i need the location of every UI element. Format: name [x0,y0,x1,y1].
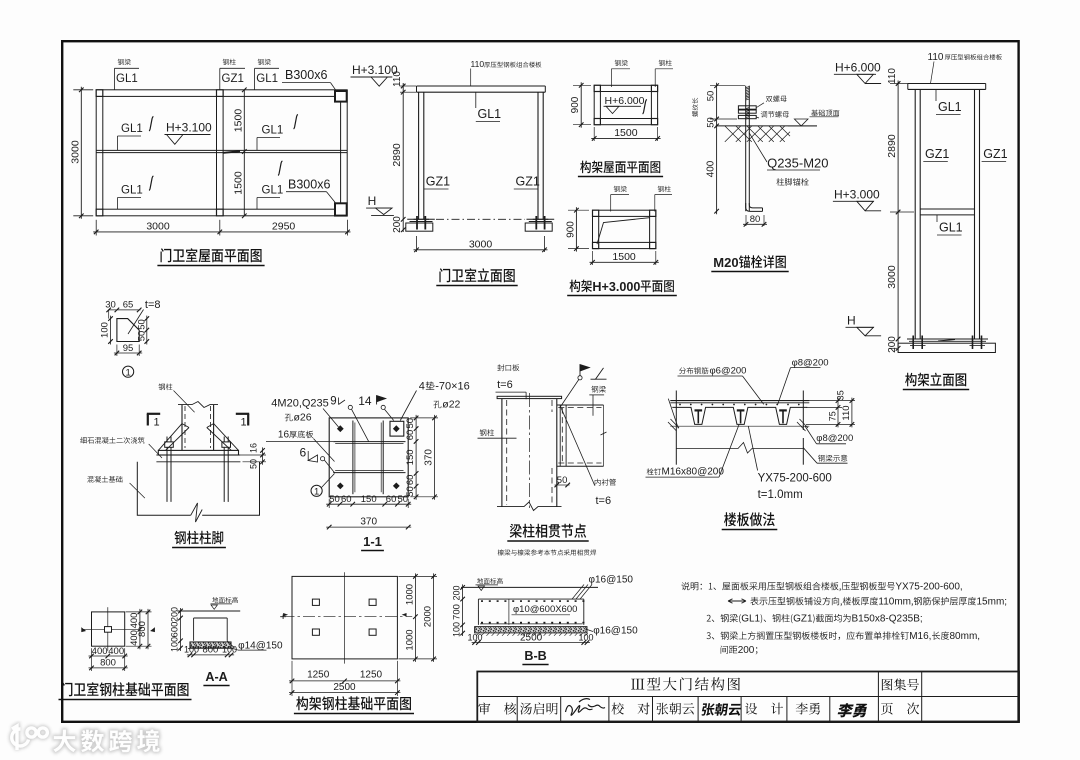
K center column square [105,627,112,633]
double nut 双螺母 [738,106,756,109]
K foundation square [92,612,125,646]
elevation B label GL1 [475,92,477,108]
plan C left dimension 900 [580,82,582,127]
svg-text:200: 200 [738,645,755,656]
I column break bottom [497,502,562,511]
K title 门卫室钢柱基础平面图 [62,682,189,696]
L column squares [312,599,319,605]
title block signature 3 李勇 (bold cursive) [836,703,868,717]
svg-text:1250: 1250 [307,670,330,681]
svg-text:60: 60 [386,494,397,505]
plan C outline [594,85,657,124]
B-B ground line [461,586,598,588]
G2 column shaft [181,405,183,451]
svg-text:60: 60 [341,494,352,505]
svg-text:1500: 1500 [614,127,638,139]
svg-text:1: 1 [314,486,319,497]
svg-text:Q235-M20: Q235-M20 [767,156,828,171]
H dim right inner 50/60/150/60/50 [415,415,417,500]
svg-text:B300x6: B300x6 [285,68,327,82]
G2 label 钢柱 [159,384,173,391]
plan A label: steel beam GL1 top-left [118,59,131,65]
watermark logo and text 大数跨境 [12,726,160,752]
H washer plate square [390,421,404,436]
svg-text:100: 100 [100,322,111,338]
svg-text:1500: 1500 [612,251,636,263]
J title 楼板做法 [724,512,775,526]
svg-text:A-A: A-A [205,670,227,684]
svg-text:1: 1 [125,367,130,378]
plan D left dimension 900 [575,207,577,251]
plan A right corner columns (thick) [335,91,347,102]
plan D outline [593,210,656,248]
elevation B ground dash line [436,218,525,220]
svg-text:1: 1 [241,417,247,429]
svg-text:110: 110 [841,405,852,420]
svg-text:200: 200 [887,336,898,353]
J label 分布钢筋6@200 [679,367,708,374]
H column box walls extended [352,421,354,495]
svg-text:1250: 1250 [360,670,383,681]
B-B center line [508,599,510,625]
J label 钢梁示意 [818,455,847,462]
notes arrow symbol [728,599,746,603]
plan K: guard room column foundation 门卫室钢柱基础平面图 [59,607,192,699]
svg-text:2500: 2500 [333,682,356,693]
title block label 图集号 [882,679,919,691]
F anchor bolts [912,336,914,350]
G2 foundation break zigzag [191,503,203,522]
svg-text:H+3.000: H+3.000 [592,280,640,294]
L title 构架钢柱基础平面图 [296,696,411,710]
svg-text:50: 50 [405,418,416,429]
title block signature 1 (cursive) [566,699,606,716]
L foundation rectangle [292,576,397,659]
G2 column break mark [178,402,218,408]
svg-text:110: 110 [887,68,898,84]
svg-text:GZ1: GZ1 [426,175,450,189]
plan C: frame roof plan 构架屋面平面图 [570,60,673,177]
svg-text:1-1: 1-1 [363,534,382,549]
K bottom dims 400/400/800 [89,655,128,657]
plan A middle beam GL1 [96,149,347,151]
svg-text:GZ1: GZ1 [516,175,540,189]
svg-text:B-B: B-B [524,649,546,663]
B-B pad hatch below [476,633,588,636]
svg-text:ø22: ø22 [442,399,460,411]
svg-text:t=6: t=6 [596,495,612,507]
J slab end diagonals [668,399,678,429]
I beam top/bottom flange [557,404,604,406]
svg-text:150: 150 [405,449,416,465]
svg-text:GZ1: GZ1 [222,73,244,85]
plan A beam-over mark at center [224,151,241,153]
G2 right dimension 16 50 [262,447,264,464]
H dim bottom 370 [326,526,411,528]
G2 secondary grout layer [156,454,240,456]
svg-text:φ6@200: φ6@200 [710,366,747,377]
A-A footing pad dark band [190,642,231,648]
svg-text:110mm: 110mm [878,597,911,608]
plan A beam tick marks [149,116,153,131]
K center axis lines [107,607,109,651]
svg-text:t=6: t=6 [497,379,513,391]
plan D title 构架H+3.000平面图 [570,280,592,293]
svg-text:110: 110 [392,71,403,87]
svg-text:1500: 1500 [233,109,245,133]
svg-text:100: 100 [222,645,237,655]
svg-text:400: 400 [108,646,124,657]
svg-text:100: 100 [184,645,199,655]
svg-text:φ8@200: φ8@200 [792,358,829,369]
elevation B bottom dimension 3000 [416,236,418,252]
svg-text:M20: M20 [713,255,738,270]
plan D bottom dimension 1500 [592,251,594,265]
svg-text:30: 30 [105,300,116,311]
H detail circle 1 with leader [311,485,322,496]
svg-text:65: 65 [123,300,134,311]
svg-text:3000: 3000 [469,238,493,250]
title block drawing name Ⅲ型大门结构图 [631,677,740,690]
anchor bolt threaded top hatch [746,87,750,88]
svg-text:35: 35 [836,390,846,400]
svg-text:t=8: t=8 [145,299,161,311]
elevation B: guard room elevation 门卫室立面图 [351,59,555,286]
I cap plate 封口板 [497,396,561,398]
svg-text:ø26: ø26 [294,412,312,424]
plan D: frame plan at H+3.000 构架H+3.000平面图 [565,186,676,296]
svg-text:GL1: GL1 [256,73,278,85]
J shear studs in ribs [697,411,699,424]
anchor bolt rod [745,86,747,212]
H dim bottom 50/60/150/60/50 [326,503,411,505]
title block name 李勇 [796,703,820,715]
elevation B left anchor bolts [416,216,418,230]
svg-text:100: 100 [170,637,180,652]
stiffener pentagon [117,319,139,342]
svg-text:-70×16: -70×16 [435,381,470,393]
label 调节螺母 [761,111,789,118]
elevation B roof slab [417,85,546,87]
foundation top line 基础顶面 [716,125,817,127]
dim 80 bottom [745,215,747,226]
A-A pad bottom line [188,647,233,649]
F roof slab [908,83,986,85]
I beam inner tube solid line [565,405,567,466]
svg-text:50: 50 [136,319,147,330]
svg-text:16: 16 [278,430,290,441]
svg-text:370: 370 [360,517,377,528]
G2 section marks 1-1 [147,413,160,415]
I beam left end solid line [559,405,561,466]
svg-text:H+3.000: H+3.000 [834,188,880,202]
detail H: base plate section 1-1 [266,381,470,551]
B-B ground label 地面标高 [477,578,503,584]
J deck bottom reference line [670,425,809,427]
plan D diagonal beam line [597,218,650,244]
I subtitle 檩梁与檩梁参考本节点采用相贯焊 [498,549,597,555]
svg-text:800: 800 [137,621,148,637]
svg-text:15mm;: 15mm; [977,597,1008,608]
svg-text:φ10@600X600: φ10@600X600 [513,604,577,615]
B-B foundation body [478,599,583,625]
svg-text:GZ1: GZ1 [793,614,813,625]
plan A corner columns [96,90,103,97]
anchor bolt L-bend bottom [746,203,763,211]
G2 gusset stiffeners [158,424,182,451]
svg-text:YX75-200-600,: YX75-200-600, [895,582,962,593]
H anchor bolt holes (filled) [337,425,344,432]
detail J: composite floor slab 楼板做法 [646,358,856,530]
svg-text:GL1: GL1 [262,125,284,137]
elevation F: frame elevation 构架立面图 [833,52,1008,390]
plan A outer beam band [96,90,347,216]
svg-text:GL1: GL1 [741,614,760,625]
svg-text:80mm,: 80mm, [950,631,981,642]
svg-text:400: 400 [92,646,108,657]
svg-text:H+6.000: H+6.000 [835,61,881,75]
F left dimension 110/2890/3000/200 [897,81,899,353]
elevation B left footing [407,218,435,220]
svg-text:GL1: GL1 [478,107,502,121]
G1 bottom dimension 95 [114,352,142,354]
plan C labels 钢梁 钢柱 [615,60,628,66]
plan A title 门卫室屋面平面图 [161,248,262,262]
svg-text:3000: 3000 [886,265,898,289]
I title 梁柱相贯节点 [510,524,587,538]
F ground dash mark [938,340,955,342]
F columns GZ1 [914,89,916,339]
J deck profile [672,407,807,424]
H dim right outer 370 [434,415,436,500]
A-A foundation body [194,618,228,641]
section L2: B-B [452,575,638,665]
svg-text:GL1: GL1 [262,185,284,197]
svg-text:M16,: M16, [909,631,931,642]
svg-text:φ16@150: φ16@150 [593,626,638,637]
I label 钢柱 [480,429,494,436]
svg-text:1: 1 [154,417,160,429]
drawing sheet border frame [62,41,1018,722]
svg-text:GL1: GL1 [939,221,963,235]
L center axis lines [344,572,346,663]
svg-text:GZ1: GZ1 [925,147,949,161]
elevation B title 门卫室立面图 [439,268,514,282]
plan A: guard room roof plan 门卫室屋面平面图 [69,59,350,266]
G2 foundation block [137,462,190,516]
A-A ground level label 地面标高 [212,597,238,603]
plan A left dimension 3000 [80,87,82,219]
title block [477,672,1019,722]
svg-text:3000: 3000 [146,220,170,232]
svg-text:900: 900 [565,221,576,238]
H base plate outline [329,418,408,497]
svg-text:100: 100 [452,622,462,637]
svg-text:2950: 2950 [272,220,296,232]
svg-text:H: H [847,314,856,328]
I label 钢梁 [592,386,606,393]
title block cell 设计 [745,703,783,715]
svg-text:9: 9 [330,396,336,408]
svg-text:400: 400 [706,160,717,177]
svg-text:B150x8-Q235B;: B150x8-Q235B; [852,614,923,625]
B-B footing pad dark band [475,627,587,633]
plan C title 构架屋面平面图 [580,161,660,174]
plan C bottom dimension 1500 [593,127,595,141]
svg-text:75: 75 [827,411,837,421]
svg-text:1500: 1500 [233,171,245,195]
G2 title 钢柱柱脚 [174,531,223,544]
plan A bottom dimension 3000 2950 [95,220,97,236]
J beam web break [676,443,803,454]
notes 说明 [681,582,1007,657]
svg-text:60: 60 [405,475,416,486]
svg-text:M16x80@200: M16x80@200 [662,467,725,478]
svg-text:150: 150 [361,494,377,505]
svg-text:800: 800 [202,645,218,656]
svg-text:100: 100 [467,632,482,642]
G1 left dimension 100 [110,316,112,345]
svg-text:80: 80 [750,214,761,225]
K section cut triangles A-A [82,628,86,632]
svg-text:14: 14 [358,394,372,408]
svg-text:800: 800 [100,658,116,669]
ground cross hatch [725,126,790,142]
svg-text:GZ1: GZ1 [983,147,1007,161]
svg-text:YX75-200-600: YX75-200-600 [758,473,832,485]
A-A pad right slope [227,641,234,648]
svg-text:50: 50 [398,494,409,505]
F label GL1 middle [936,215,938,222]
plan C beam tick [643,99,647,114]
svg-text:200: 200 [452,585,462,600]
title block cell 校对 [612,703,650,715]
svg-text:GL1: GL1 [121,185,143,197]
svg-text:GL1: GL1 [121,123,143,135]
svg-text:110: 110 [471,59,485,69]
title block cell 审核 [478,703,516,715]
A-A ground line [177,610,240,612]
B-B bottom dims 100/2500/100 [472,642,590,644]
J right dims 35/75/110 [837,398,839,428]
plan L: frame column foundation 构架钢柱基础平面图 [280,572,437,713]
J slab top lines [670,400,809,402]
label Q235-M20 柱脚锚栓 [749,133,767,162]
F title 构架立面图 [905,373,966,387]
I label 封口板 t=6 [497,364,519,371]
svg-text:900: 900 [570,96,581,113]
I beam dashed lines [558,407,601,409]
detail I: beam-column connection 梁柱相贯节点 [478,364,616,555]
L right dims 1000/1000/2000 [414,573,416,662]
svg-text:φ16@150: φ16@150 [589,575,634,586]
svg-text:GL1: GL1 [938,100,962,114]
detail E: M20 anchor bolt M20锚栓详图 [692,83,839,272]
svg-text:600: 600 [170,622,181,638]
svg-text:50: 50 [136,331,147,342]
F label GL1 top [935,89,937,101]
plan A dimension 1500/1500 middle strip [243,90,245,216]
K right dims 400/400/800 [139,609,141,649]
title block signature 2 张朝云 (bold) [701,703,742,716]
B-B bottom rebar dots [481,622,483,624]
svg-text:H: H [368,194,377,208]
svg-text:95: 95 [123,343,134,354]
I column centerline [528,393,530,508]
plan A label: steel column GZ1 top-middle [223,59,236,65]
svg-text:50: 50 [329,494,340,505]
svg-text:2000: 2000 [423,606,434,627]
svg-text:60: 60 [405,430,416,441]
label 双螺母 [766,96,787,103]
L bottom dims 1250/1250/2500 [289,680,400,682]
G1 top dimension 30 65 [109,309,141,311]
svg-text:H+3.100: H+3.100 [166,121,212,135]
section K2: A-A [170,597,283,686]
elevation B right column GZ1 [537,92,539,219]
elevation B left dimension 110/2890/200 [402,83,404,232]
svg-text:100: 100 [578,632,593,642]
plan D labels 钢梁 钢柱 [614,186,627,192]
title block label 页次 [881,703,919,715]
elevation B left column GZ1 [418,92,420,219]
B-B top rebar dots [481,600,483,602]
F middle beam GL1 [920,208,974,210]
svg-text:50: 50 [557,475,568,486]
svg-text:110: 110 [928,52,944,63]
svg-text:50: 50 [706,91,717,102]
label 基础顶面 [811,110,839,117]
svg-text:t=1.0mm: t=1.0mm [758,489,803,501]
G2 label 细石混凝土二次浇筑 [80,437,144,444]
I big diagonal leader 内衬管 [561,407,595,486]
G1 detail circle 1 [123,366,134,377]
svg-text:200: 200 [392,216,403,233]
adjusting nut 调节螺母 [738,115,756,118]
title block name 张朝云 [656,703,694,715]
title block vertical dividers [877,672,879,722]
svg-text:4M20,Q235: 4M20,Q235 [271,398,328,410]
svg-text:H+3.100: H+3.100 [352,63,398,77]
svg-text:200: 200 [170,607,180,622]
svg-text:B300x6: B300x6 [288,178,330,192]
svg-text:700: 700 [452,604,463,620]
B-B left dims 200/700/100 [462,584,464,636]
G1 right dimension 50 50 [146,316,148,345]
J rebar dots in slab [679,404,681,406]
plan C corner columns [594,85,600,91]
svg-text:6: 6 [300,446,307,460]
A-A bottom dims 100/800/100 [187,654,234,656]
I weld flag top [579,365,581,377]
plan A label: steel beam GL1 top-right [258,59,271,65]
A-A left dims 200/600/100 [180,608,182,651]
L section marks B [280,615,286,620]
svg-text:4: 4 [419,381,425,393]
svg-text:2890: 2890 [391,143,403,167]
detail G2: steel column base 钢柱柱脚 [80,384,266,548]
svg-text:2890: 2890 [886,134,898,158]
svg-text:GL1: GL1 [116,73,138,85]
G2 anchor bolts [166,447,168,502]
svg-text:16: 16 [249,443,259,453]
G2 label 混凝土基础 [87,476,122,483]
G2 base plate [158,450,238,455]
E left dimension 50/50/400 螺纹长 [716,83,718,215]
svg-text:φ8@200: φ8@200 [816,433,853,444]
svg-text:H+6.000: H+6.000 [605,95,645,107]
J label 栓钉M16x80@200 [647,468,661,475]
